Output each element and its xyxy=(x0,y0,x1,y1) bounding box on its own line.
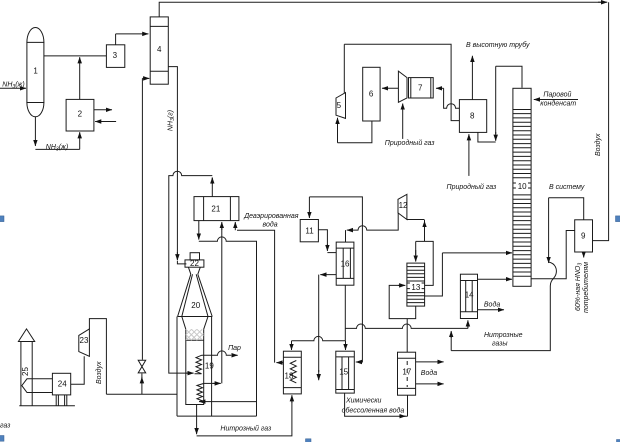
svg-text:газы: газы xyxy=(492,341,508,348)
svg-text:Природный газ: Природный газ xyxy=(385,139,435,147)
svg-text:Паровой: Паровой xyxy=(543,91,571,99)
svg-text:Деаэрированная: Деаэрированная xyxy=(243,213,299,220)
svg-text:22: 22 xyxy=(190,259,199,268)
svg-text:NH3(ж): NH3(ж) xyxy=(2,82,24,91)
svg-text:12: 12 xyxy=(399,201,408,210)
svg-text:24: 24 xyxy=(58,380,67,389)
svg-text:17: 17 xyxy=(402,368,411,377)
svg-text:10: 10 xyxy=(518,182,527,191)
svg-text:вода: вода xyxy=(263,221,278,229)
svg-text:Вода: Вода xyxy=(421,369,437,377)
svg-text:Воздух: Воздух xyxy=(594,133,602,156)
svg-text:конденсат: конденсат xyxy=(540,100,576,108)
svg-text:обессоленная вода: обессоленная вода xyxy=(342,407,405,415)
svg-text:9: 9 xyxy=(581,232,586,241)
svg-text:15: 15 xyxy=(339,368,348,377)
svg-text:Природный газ: Природный газ xyxy=(447,183,497,191)
svg-text:25: 25 xyxy=(21,367,30,376)
svg-text:4: 4 xyxy=(157,45,162,54)
svg-text:6: 6 xyxy=(369,90,374,99)
svg-text:NH3(ж): NH3(ж) xyxy=(46,144,68,153)
svg-text:7: 7 xyxy=(418,84,423,93)
svg-text:Химически: Химически xyxy=(345,398,381,405)
svg-text:Нитрозный газ: Нитрозный газ xyxy=(220,425,272,433)
svg-text:В систему: В систему xyxy=(549,184,585,191)
svg-text:NH3(г): NH3(г) xyxy=(168,110,177,131)
svg-text:газ: газ xyxy=(0,423,11,430)
svg-text:8: 8 xyxy=(470,112,475,121)
svg-text:Воздух: Воздух xyxy=(95,361,103,384)
svg-text:21: 21 xyxy=(211,205,220,214)
svg-text:Вода: Вода xyxy=(484,301,500,309)
svg-text:14: 14 xyxy=(465,291,474,300)
svg-text:18: 18 xyxy=(285,372,294,381)
svg-text:1: 1 xyxy=(33,67,38,76)
svg-text:20: 20 xyxy=(191,301,200,310)
svg-text:23: 23 xyxy=(80,336,89,345)
svg-text:Пар: Пар xyxy=(228,345,241,352)
svg-text:Нитрозные: Нитрозные xyxy=(484,332,523,339)
svg-text:16: 16 xyxy=(341,260,350,269)
svg-text:2: 2 xyxy=(78,110,83,119)
svg-text:потребителям: потребителям xyxy=(582,262,590,313)
svg-text:В высотную трубу: В высотную трубу xyxy=(466,41,530,49)
svg-text:11: 11 xyxy=(305,227,314,236)
svg-text:5: 5 xyxy=(337,101,342,110)
svg-text:19: 19 xyxy=(205,362,214,371)
svg-text:3: 3 xyxy=(113,51,118,60)
svg-text:13: 13 xyxy=(411,283,420,292)
